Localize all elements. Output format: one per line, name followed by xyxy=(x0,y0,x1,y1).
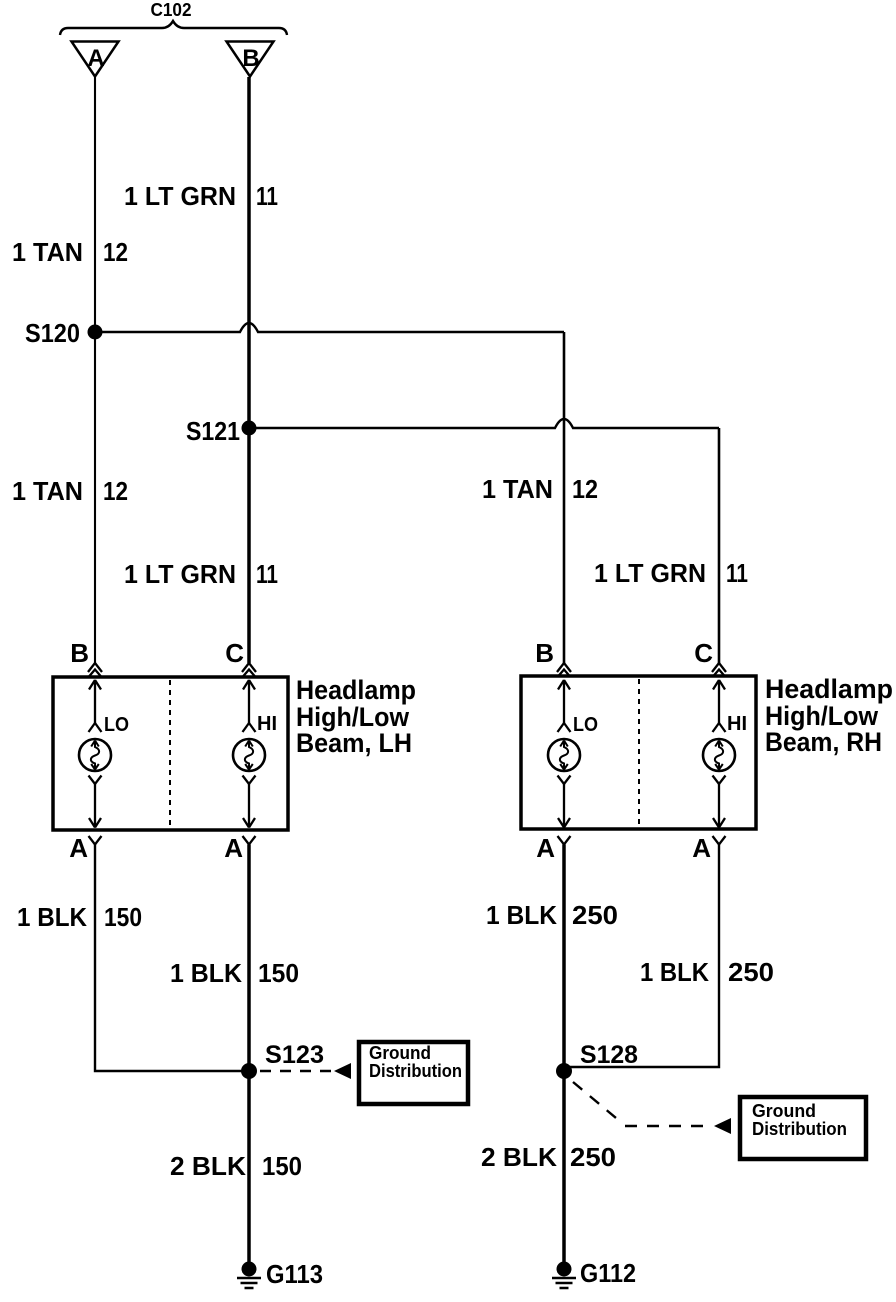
svg-text:11: 11 xyxy=(256,559,278,589)
lamp LO (LH): bulb circle with filament xyxy=(79,739,111,771)
svg-text:Beam, RH: Beam, RH xyxy=(765,727,882,757)
connector symbol at pin C (LH) xyxy=(242,663,256,677)
lamp LO (LH): chevron below bulb xyxy=(89,776,102,785)
svg-text:A: A xyxy=(692,833,711,863)
wire: BLK from pin A (RH LO) down to ground G112 xyxy=(562,845,566,1266)
dashed reference arrow S128 to Ground Distribution xyxy=(573,1082,713,1126)
connector symbol at pin A (LH LO) xyxy=(89,836,102,845)
lamp HI (RH): terminal arrow up xyxy=(713,680,725,723)
svg-text:Beam, LH: Beam, LH xyxy=(296,728,412,758)
connector C102 pin B terminal xyxy=(227,42,274,77)
lamp HI (RH): chevron below bulb xyxy=(713,776,726,785)
svg-text:A: A xyxy=(87,45,104,72)
connector symbol at pin A (RH LO) xyxy=(558,836,571,845)
lamp HI (RH): bulb circle with filament xyxy=(703,739,735,771)
headlamp LH name xyxy=(296,675,416,758)
lamp HI (RH): connector chevron above bulb xyxy=(713,723,726,732)
svg-text:HI: HI xyxy=(727,713,747,735)
svg-text:11: 11 xyxy=(256,181,278,211)
svg-text:12: 12 xyxy=(572,474,598,504)
svg-text:1 BLK: 1 BLK xyxy=(17,902,87,932)
lamp LO (RH): connector chevron above bulb xyxy=(558,723,571,732)
svg-text:Headlamp: Headlamp xyxy=(765,674,893,704)
lamp HI (LH): chevron below bulb xyxy=(243,776,256,785)
connector symbol at pin B (RH) xyxy=(557,663,571,677)
wire label 1 TAN / 12 (right) xyxy=(482,474,598,504)
lamp HI (LH): connector chevron above bulb xyxy=(243,723,256,732)
wire label 1 BLK / 150 (middle) xyxy=(170,958,299,988)
svg-text:250: 250 xyxy=(728,957,774,987)
svg-text:1 LT GRN: 1 LT GRN xyxy=(124,559,236,589)
wire: S120 horizontal to right TAN branch (hop over LT GRN wire) xyxy=(95,323,564,332)
ground G112 symbol xyxy=(557,1262,572,1277)
Ground Distribution box (right) xyxy=(740,1097,866,1159)
wire label 1 BLK / 250 (right) xyxy=(486,900,618,930)
svg-text:150: 150 xyxy=(258,958,299,988)
svg-text:12: 12 xyxy=(103,476,128,506)
svg-text:Distribution: Distribution xyxy=(752,1119,847,1139)
svg-text:A: A xyxy=(69,833,88,863)
wire label 1 TAN / 12 (upper left) xyxy=(12,237,128,267)
svg-text:HI: HI xyxy=(257,713,277,735)
svg-text:1 TAN: 1 TAN xyxy=(482,474,553,504)
lamp LO (RH): wire and arrow down to pin A xyxy=(558,784,570,828)
svg-text:G112: G112 xyxy=(580,1258,636,1288)
wire: LT GRN from C102-B down to pin C (LH) xyxy=(247,77,251,663)
svg-text:Ground: Ground xyxy=(369,1043,431,1063)
svg-text:S128: S128 xyxy=(580,1041,638,1069)
lamp LO (LH): terminal arrow up xyxy=(89,680,101,723)
connector symbol at pin A (LH HI) xyxy=(243,836,256,845)
wire label 2 BLK / 250 xyxy=(481,1142,616,1172)
lamp LO (LH): wire and arrow down to pin A xyxy=(89,784,101,828)
svg-text:150: 150 xyxy=(104,902,142,932)
svg-text:1 BLK: 1 BLK xyxy=(170,958,242,988)
svg-text:S123: S123 xyxy=(265,1041,324,1069)
svg-text:250: 250 xyxy=(570,1142,616,1172)
connector symbol at pin A (RH HI) xyxy=(713,836,726,845)
lamp HI (RH): wire and arrow down to pin A xyxy=(713,784,725,828)
lamp HI (LH): bulb circle with filament xyxy=(233,739,265,771)
svg-text:150: 150 xyxy=(262,1151,302,1181)
svg-text:C: C xyxy=(694,638,713,668)
wire label 2 BLK / 150 xyxy=(170,1151,302,1181)
dashed reference arrow S123 to Ground Distribution xyxy=(260,1070,332,1072)
svg-text:1 LT GRN: 1 LT GRN xyxy=(594,558,706,588)
lamp LO (RH): terminal arrow up xyxy=(558,680,570,723)
svg-text:Ground: Ground xyxy=(752,1101,816,1121)
wire label 1 BLK / 150 (left) xyxy=(17,902,142,932)
wire: BLK from pin A (LH HI) down to ground G113 xyxy=(247,845,251,1266)
ground G113 symbol xyxy=(242,1262,257,1277)
wire: LT GRN branch down to pin C (RH) xyxy=(718,428,721,663)
svg-text:S120: S120 xyxy=(25,318,80,348)
svg-text:LO: LO xyxy=(573,714,598,736)
svg-text:C102: C102 xyxy=(151,0,192,20)
svg-text:12: 12 xyxy=(103,237,128,267)
wire: TAN from C102-A down to pin B (LH) xyxy=(94,77,96,663)
svg-text:11: 11 xyxy=(726,558,748,588)
headlamp RH box xyxy=(521,676,756,829)
Ground Distribution box (left) xyxy=(359,1042,468,1104)
svg-text:Distribution: Distribution xyxy=(369,1061,462,1081)
splice S120 xyxy=(25,318,103,348)
svg-text:2 BLK: 2 BLK xyxy=(481,1142,557,1172)
wire label 1 LT GRN / 11 (upper) xyxy=(124,181,278,211)
connector C102 brace xyxy=(60,21,287,35)
connector symbol at pin B (LH) xyxy=(88,663,102,677)
lamp LO (RH): bulb circle with filament xyxy=(548,739,580,771)
wire: BLK from pin A (RH HI) down and left to S128 xyxy=(570,845,719,1068)
svg-text:1 LT GRN: 1 LT GRN xyxy=(124,181,236,211)
wire label 1 BLK / 250 (far right) xyxy=(640,957,774,987)
svg-text:2 BLK: 2 BLK xyxy=(170,1151,246,1181)
wire: BLK from pin A (LH LO) down and right to S123 xyxy=(95,845,242,1072)
lamp LO (LH): connector chevron above bulb xyxy=(89,723,102,732)
svg-text:1 BLK: 1 BLK xyxy=(640,957,709,987)
headlamp RH name xyxy=(765,674,893,757)
svg-text:A: A xyxy=(224,833,243,863)
svg-text:B: B xyxy=(535,638,554,668)
wire label 1 LT GRN / 11 (right) xyxy=(594,558,748,588)
svg-text:1 BLK: 1 BLK xyxy=(486,900,557,930)
svg-text:250: 250 xyxy=(572,900,618,930)
svg-text:1 TAN: 1 TAN xyxy=(12,476,83,506)
svg-text:LO: LO xyxy=(104,714,129,736)
connector C102 pin A terminal xyxy=(72,42,119,77)
splice S128 xyxy=(556,1041,638,1079)
headlamp RH divider (dashed) xyxy=(638,679,640,826)
lamp LO (RH): chevron below bulb xyxy=(558,776,571,785)
wire label 1 LT GRN / 11 (left) xyxy=(124,559,278,589)
wire: TAN branch down to pin B (RH) xyxy=(563,332,566,663)
lamp HI (LH): wire and arrow down to pin A xyxy=(243,784,255,828)
connector symbol at pin C (RH) xyxy=(712,663,726,677)
wire label 1 TAN / 12 (lower left) xyxy=(12,476,128,506)
svg-text:B: B xyxy=(70,638,89,668)
headlamp LH box xyxy=(53,677,288,830)
wire: S121 horizontal to right LT GRN branch (hop over TAN wire) xyxy=(249,419,719,428)
splice S123 xyxy=(241,1041,324,1079)
headlamp LH divider (dashed) xyxy=(169,680,171,827)
svg-text:1 TAN: 1 TAN xyxy=(12,237,83,267)
splice S121 xyxy=(186,416,257,446)
lamp HI (LH): terminal arrow up xyxy=(243,680,255,723)
svg-text:G113: G113 xyxy=(266,1259,323,1289)
svg-text:Headlamp: Headlamp xyxy=(296,675,416,705)
svg-text:B: B xyxy=(242,45,259,72)
svg-text:S121: S121 xyxy=(186,416,240,446)
svg-text:A: A xyxy=(536,833,555,863)
svg-text:C: C xyxy=(225,638,244,668)
